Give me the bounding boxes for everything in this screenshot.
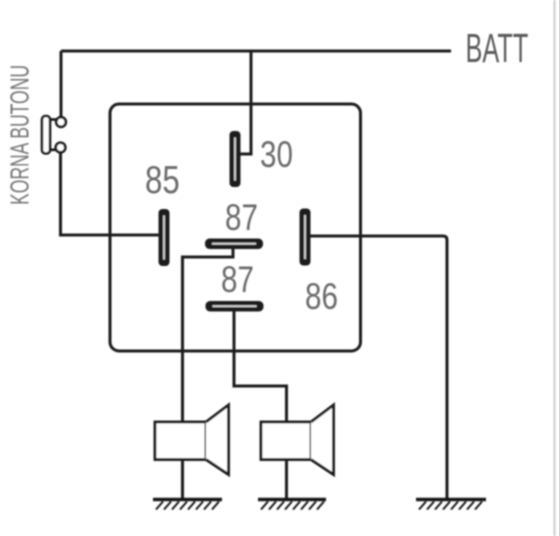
wire from BATT bus down to horn button: [60, 51, 63, 118]
svg-text:85: 85: [145, 159, 180, 202]
wire horn H1 to ground: [181, 460, 184, 501]
wire BATT bus: [61, 50, 451, 53]
svg-text:BATT: BATT: [466, 26, 529, 72]
label 87 upper: [225, 198, 258, 239]
label 30: [260, 135, 293, 176]
pin 87 lower terminal: [206, 301, 264, 312]
wire horn button to relay pin 85: [61, 153, 160, 236]
pin 85 terminal: [159, 209, 170, 266]
switch S1 horn button: [42, 116, 66, 154]
ground under horn H1: [153, 500, 222, 510]
svg-text:30: 30: [260, 135, 293, 176]
horn H1: [155, 405, 229, 475]
relay K1 body: [110, 104, 361, 351]
label 86: [305, 277, 338, 318]
label 87 lower: [221, 260, 254, 301]
wire horn H2 to ground: [285, 460, 288, 501]
ground under horn H2: [258, 500, 326, 510]
pin 87 upper terminal: [205, 239, 263, 250]
svg-text:86: 86: [305, 277, 338, 318]
label KORNA BUTONU: [5, 65, 34, 205]
pin 30 terminal: [230, 131, 241, 187]
pin 86 terminal: [300, 209, 311, 266]
ground right: [416, 500, 486, 510]
svg-text:KORNA BUTONU: KORNA BUTONU: [5, 65, 34, 205]
wire BATT bus to relay pin 30: [241, 51, 252, 154]
wire pin 87 lower to horn H2: [234, 311, 287, 423]
page edge line: [554, 0, 556, 536]
wire pin 86 to right ground run: [310, 236, 447, 499]
horn H2: [261, 405, 334, 475]
label 85: [145, 159, 180, 202]
svg-text:87: 87: [221, 260, 254, 301]
svg-text:87: 87: [225, 198, 258, 239]
node BATT label: [466, 26, 529, 72]
wire pin 87 upper to horn H1: [183, 248, 234, 422]
